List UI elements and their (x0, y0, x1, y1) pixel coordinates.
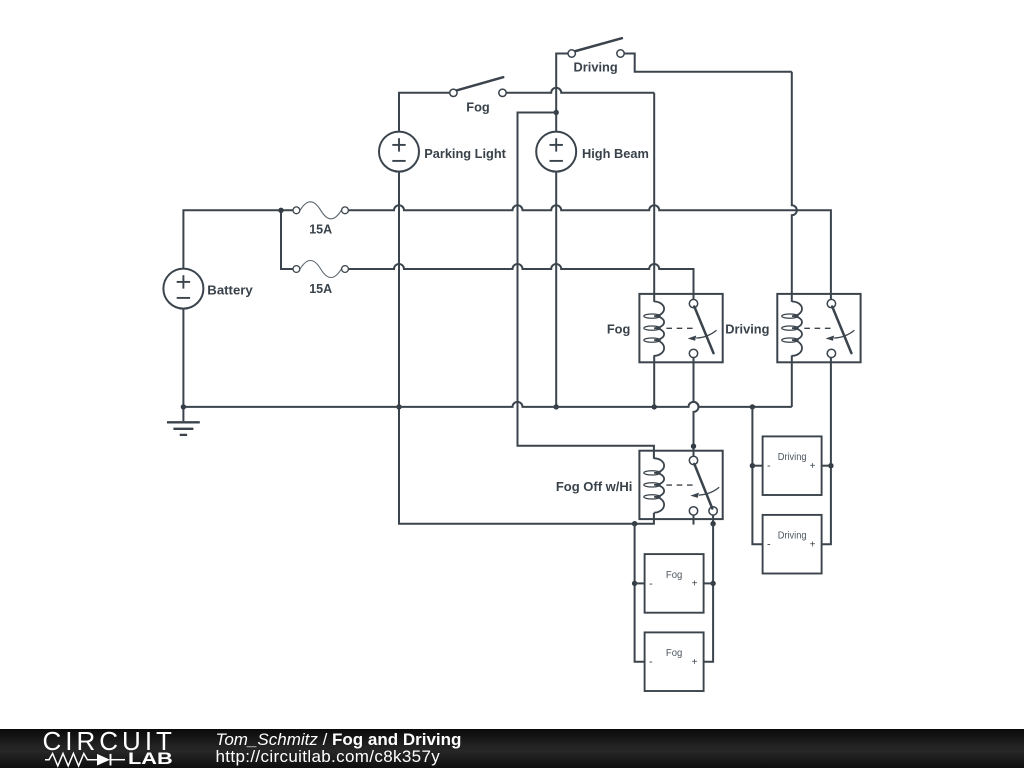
svg-text:15A: 15A (309, 222, 332, 236)
svg-text:Driving: Driving (778, 452, 807, 463)
svg-text:Parking Light: Parking Light (424, 146, 506, 161)
svg-text:Fog: Fog (466, 99, 489, 114)
svg-text:-: - (767, 539, 771, 551)
svg-text:15A: 15A (309, 282, 332, 296)
svg-text:Fog: Fog (607, 322, 630, 337)
svg-text:Driving: Driving (574, 60, 618, 75)
svg-text:+: + (692, 579, 698, 590)
svg-text:Driving: Driving (725, 322, 769, 337)
svg-text:Driving: Driving (778, 531, 807, 542)
svg-text:+: + (692, 657, 698, 668)
svg-text:+: + (810, 461, 816, 472)
svg-text:-: - (767, 460, 771, 472)
svg-text:High Beam: High Beam (582, 146, 649, 161)
svg-text:Fog: Fog (666, 648, 683, 659)
svg-text:-: - (649, 656, 653, 668)
svg-text:Battery: Battery (207, 282, 253, 297)
svg-text:Fog: Fog (666, 570, 683, 581)
svg-text:-: - (649, 578, 653, 590)
svg-text:+: + (810, 539, 816, 550)
svg-text:Fog Off w/Hi: Fog Off w/Hi (556, 479, 633, 494)
